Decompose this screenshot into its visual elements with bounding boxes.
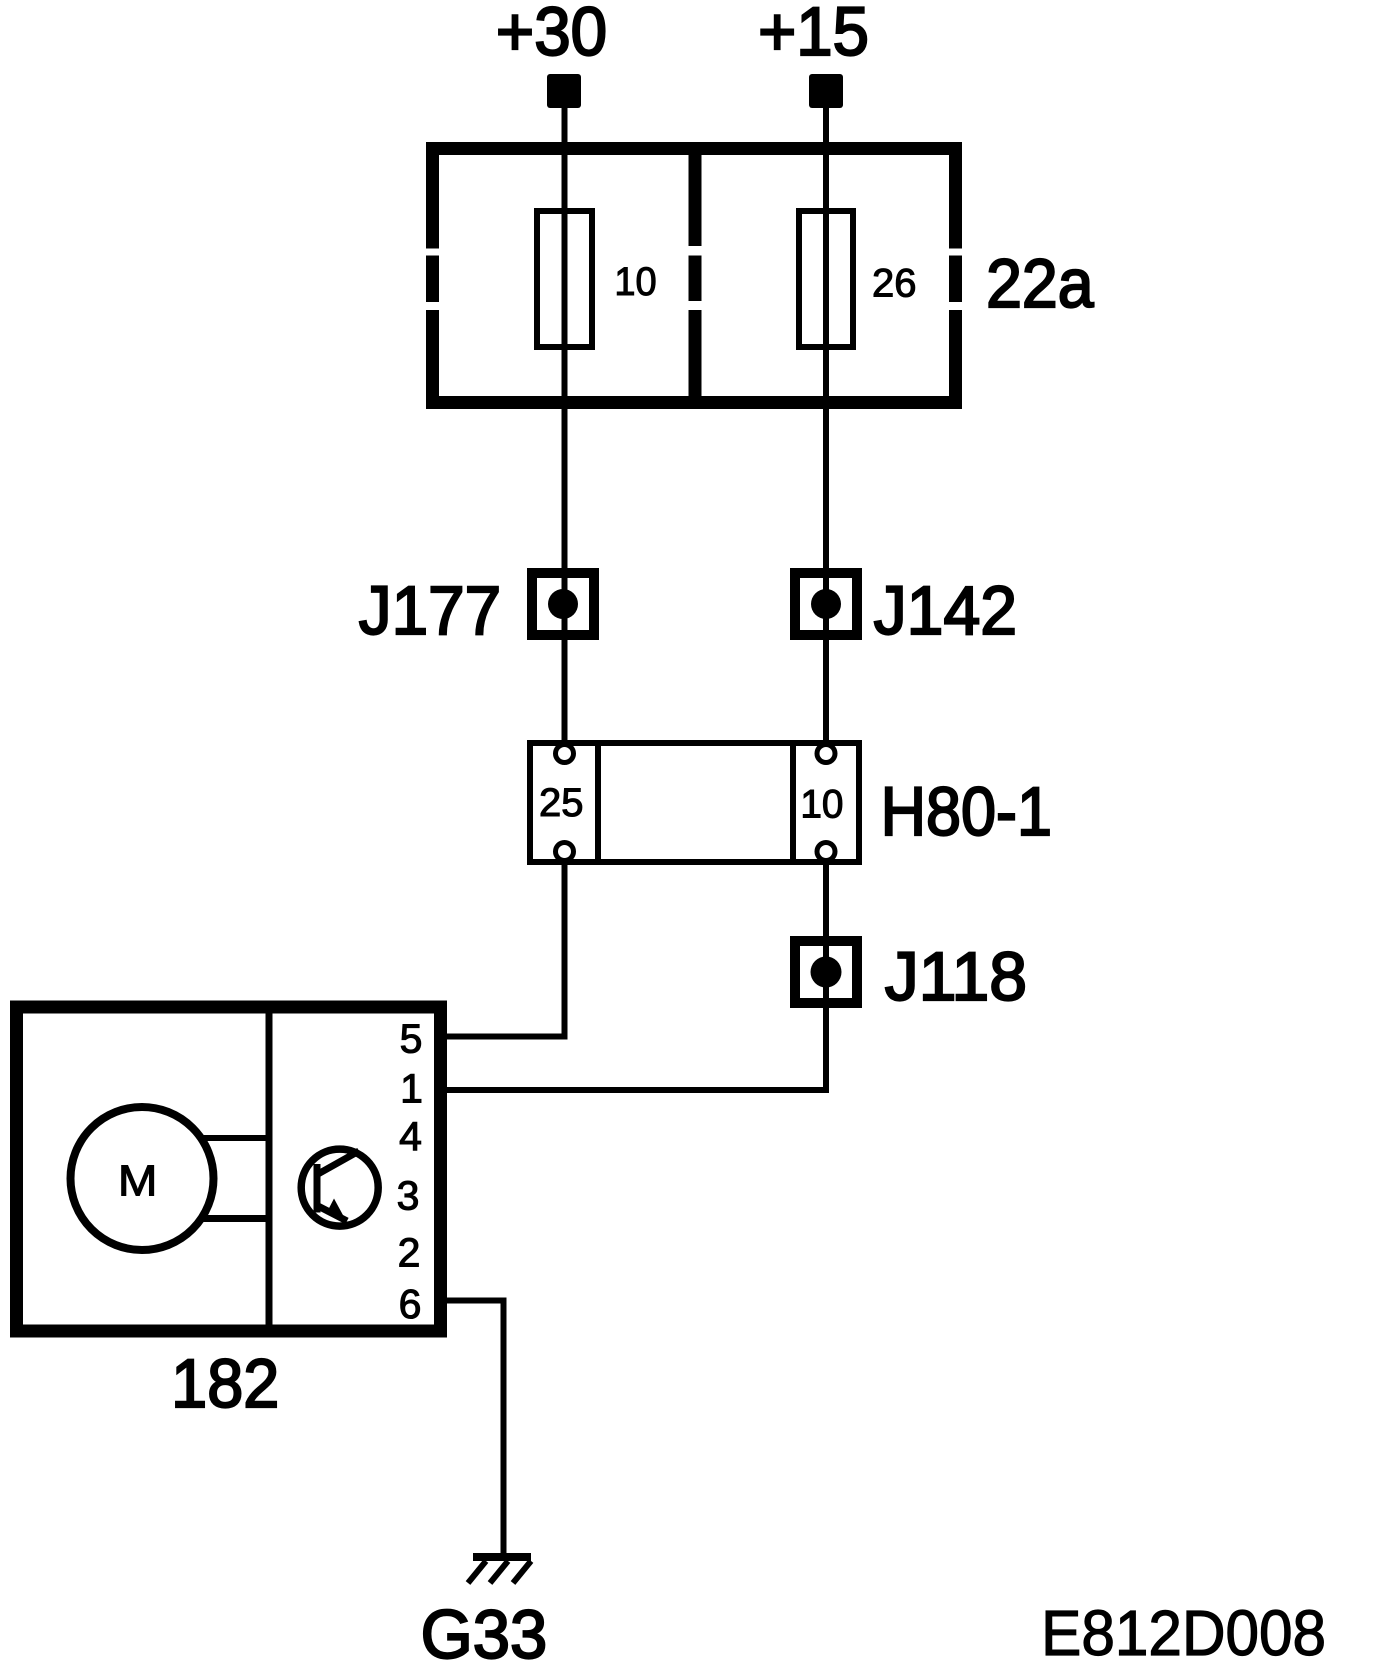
connector J177 label bbox=[359, 573, 501, 650]
svg-text:J142: J142 bbox=[874, 573, 1017, 650]
H80-1 pin 25 bottom circle bbox=[556, 843, 574, 861]
182 internal divider bbox=[266, 1013, 273, 1325]
wire 182 pin 6 to ground G33 bbox=[446, 1301, 504, 1558]
svg-text:1: 1 bbox=[400, 1066, 423, 1112]
H80-1 pin 25 label bbox=[539, 781, 584, 825]
motor M circle bbox=[71, 1107, 214, 1250]
H80-1 pin 25 top circle bbox=[556, 745, 574, 763]
ground symbol bar bbox=[473, 1553, 531, 1561]
svg-text:6: 6 bbox=[399, 1281, 422, 1327]
fuse box 22a designator bbox=[986, 246, 1094, 323]
H80-1 pin 10 bottom circle bbox=[817, 843, 835, 861]
H80-1 right cell divider bbox=[790, 743, 796, 862]
component 182 pump unit box bbox=[17, 1007, 441, 1331]
node +30 label bbox=[496, 0, 607, 70]
terminal square +15 bbox=[809, 74, 843, 108]
terminal square +30 bbox=[547, 74, 581, 108]
motor link line lower bbox=[200, 1215, 269, 1222]
svg-text:22a: 22a bbox=[986, 246, 1094, 323]
fuse box 22a bottom edge bbox=[426, 396, 962, 409]
fuse 26 value label bbox=[872, 262, 917, 306]
connector J142 bbox=[795, 573, 857, 635]
svg-text:5: 5 bbox=[400, 1016, 423, 1062]
svg-text:10: 10 bbox=[614, 260, 656, 304]
connector J118 bbox=[795, 941, 857, 1003]
wire H80-1 pin 10 to J118 to 182 pin 1 bbox=[446, 864, 826, 1090]
fuse box 22a top edge bbox=[426, 142, 962, 155]
ground G33 label bbox=[421, 1596, 548, 1673]
svg-text:H80-1: H80-1 bbox=[881, 772, 1052, 849]
H80-1 pin 10 top circle bbox=[817, 745, 835, 763]
svg-text:+30: +30 bbox=[496, 0, 607, 70]
fuse box 22a right dashed edge bbox=[949, 142, 962, 409]
fuse box 22a middle dashed divider bbox=[689, 148, 702, 402]
H80-1 left cell divider bbox=[595, 743, 601, 862]
ground hatch 3 bbox=[513, 1561, 531, 1583]
connector H80-1 body bbox=[530, 743, 859, 862]
transistor Q1 circle bbox=[301, 1149, 378, 1226]
svg-text:2: 2 bbox=[398, 1230, 421, 1276]
ground hatch 1 bbox=[468, 1561, 486, 1583]
svg-text:G33: G33 bbox=[421, 1596, 548, 1673]
component 182 designator bbox=[171, 1345, 279, 1422]
wire from +15 through fuse 26 to J142 to H80-1 pin 10 bbox=[823, 100, 829, 741]
wire from +30 through fuse 10 to J177 to H80-1 pin 25 bbox=[562, 100, 568, 741]
svg-text:10: 10 bbox=[800, 782, 843, 827]
fuse 26 bbox=[799, 211, 853, 347]
svg-text:M: M bbox=[118, 1156, 158, 1205]
svg-text:J118: J118 bbox=[885, 938, 1027, 1016]
svg-text:3: 3 bbox=[397, 1173, 420, 1219]
svg-text:E812D008: E812D008 bbox=[1041, 1598, 1326, 1669]
svg-text:182: 182 bbox=[171, 1345, 279, 1422]
transistor emitter arrow bbox=[326, 1199, 344, 1218]
svg-text:26: 26 bbox=[872, 262, 917, 306]
svg-text:+15: +15 bbox=[758, 0, 869, 70]
transistor base bar bbox=[314, 1164, 321, 1213]
fuse 10 value label bbox=[614, 260, 656, 304]
wire H80-1 pin 25 to 182 pin 5 bbox=[446, 864, 565, 1037]
node +15 label bbox=[758, 0, 869, 70]
fuse box 22a left dashed edge bbox=[426, 142, 439, 409]
connector H80-1 designator bbox=[881, 772, 1052, 849]
motor link line upper bbox=[200, 1135, 269, 1141]
transistor collector line bbox=[318, 1151, 359, 1174]
connector J142 label bbox=[874, 573, 1017, 650]
transistor emitter line bbox=[318, 1206, 347, 1221]
svg-text:4: 4 bbox=[399, 1114, 422, 1160]
svg-text:J177: J177 bbox=[359, 573, 501, 650]
fuse 10 bbox=[537, 211, 592, 347]
drawing number E812D008 bbox=[1041, 1598, 1326, 1669]
svg-text:25: 25 bbox=[539, 781, 584, 825]
connector J118 label bbox=[885, 938, 1027, 1016]
H80-1 pin 10 label bbox=[800, 782, 843, 827]
motor M letter bbox=[118, 1156, 158, 1205]
ground hatch 2 bbox=[490, 1561, 508, 1583]
connector J177 bbox=[532, 573, 594, 635]
